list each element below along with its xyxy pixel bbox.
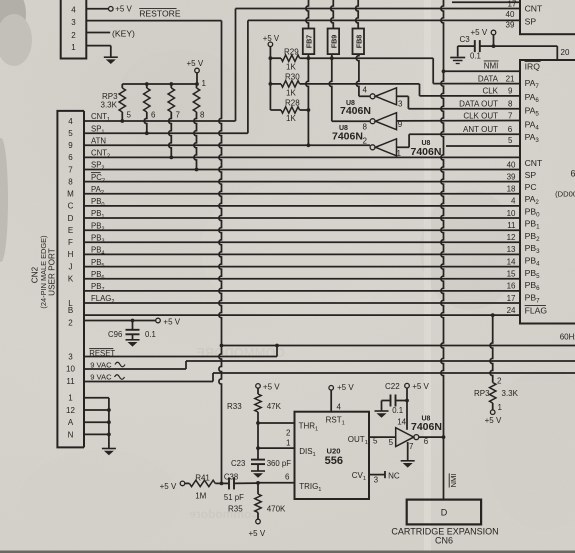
svg-text:2: 2	[71, 31, 76, 40]
svg-text:4: 4	[68, 117, 73, 126]
svg-text:K: K	[68, 275, 74, 284]
svg-text:4: 4	[511, 197, 516, 206]
svg-text:5: 5	[373, 436, 378, 445]
svg-text:A: A	[68, 418, 74, 427]
svg-text:FB8: FB8	[354, 35, 363, 49]
svg-text:7: 7	[508, 111, 513, 120]
svg-text:9 VAC: 9 VAC	[90, 373, 112, 382]
svg-text:R28: R28	[285, 99, 300, 108]
svg-text:CN6: CN6	[435, 536, 453, 546]
svg-text:1: 1	[286, 439, 291, 448]
svg-text:1M: 1M	[195, 492, 206, 501]
svg-text:1K: 1K	[286, 63, 296, 72]
svg-text:DATA: DATA	[478, 74, 499, 83]
svg-text:R41: R41	[195, 474, 210, 483]
svg-text:+5 V: +5 V	[187, 59, 204, 68]
svg-text:8: 8	[363, 123, 368, 132]
svg-text:RESET: RESET	[89, 349, 115, 358]
svg-text:PC: PC	[525, 182, 537, 192]
svg-text:1: 1	[202, 79, 207, 88]
svg-text:ANT OUT: ANT OUT	[463, 125, 498, 134]
svg-text:SP: SP	[525, 17, 537, 27]
svg-text:9: 9	[68, 141, 73, 150]
svg-text:14: 14	[397, 417, 406, 426]
svg-text:40: 40	[506, 10, 515, 19]
svg-text:2: 2	[286, 428, 291, 437]
svg-text:NMI: NMI	[484, 61, 499, 70]
svg-text:5: 5	[127, 111, 132, 120]
svg-text:R29: R29	[284, 48, 299, 57]
svg-text:10: 10	[66, 365, 75, 374]
svg-text:2: 2	[363, 137, 368, 146]
svg-text:47K: 47K	[267, 402, 282, 411]
svg-text:39: 39	[506, 21, 515, 30]
svg-text:65: 65	[571, 169, 575, 179]
svg-text:NC: NC	[388, 472, 400, 481]
svg-text:2: 2	[497, 377, 502, 386]
svg-text:+5 V: +5 V	[160, 482, 177, 491]
svg-text:51 pF: 51 pF	[224, 493, 244, 502]
svg-text:1: 1	[397, 149, 402, 158]
svg-text:60Hz: 60Hz	[560, 333, 575, 342]
svg-text:5: 5	[68, 129, 73, 138]
svg-text:FB7: FB7	[305, 35, 314, 49]
svg-text:11: 11	[66, 377, 75, 386]
svg-text:CLK: CLK	[482, 87, 498, 96]
svg-text:R33: R33	[227, 402, 242, 411]
svg-text:17: 17	[508, 0, 517, 8]
svg-text:3: 3	[68, 352, 73, 361]
svg-text:R30: R30	[285, 73, 300, 82]
svg-text:4: 4	[363, 86, 368, 95]
svg-text:C22: C22	[385, 382, 400, 391]
svg-text:E: E	[68, 226, 73, 235]
svg-text:7: 7	[409, 442, 414, 451]
svg-text:6: 6	[285, 473, 290, 482]
svg-text:RP3: RP3	[474, 389, 490, 398]
svg-text:(24-PIN MALE EDGE): (24-PIN MALE EDGE)	[39, 235, 48, 308]
svg-text:N: N	[68, 430, 74, 439]
svg-text:1K: 1K	[286, 89, 296, 98]
svg-text:CNT: CNT	[525, 3, 543, 13]
svg-text:13: 13	[507, 245, 516, 254]
svg-text:17: 17	[507, 294, 516, 303]
svg-text:3: 3	[374, 476, 379, 485]
svg-text:DATA OUT: DATA OUT	[459, 99, 498, 108]
svg-text:+5 V: +5 V	[485, 416, 502, 425]
svg-text:R35: R35	[228, 505, 243, 514]
svg-text:COMMODORE: COMMODORE	[196, 345, 285, 360]
svg-text:9: 9	[398, 120, 403, 129]
svg-text:5: 5	[389, 438, 394, 447]
svg-text:C: C	[68, 202, 74, 211]
svg-text:20: 20	[561, 48, 570, 57]
svg-text:10: 10	[507, 209, 516, 218]
svg-text:CN2: CN2	[31, 266, 40, 283]
svg-text:39: 39	[507, 172, 516, 181]
svg-text:SP: SP	[525, 170, 537, 180]
svg-text:+5 V: +5 V	[337, 383, 354, 392]
svg-text:3: 3	[398, 99, 403, 108]
svg-text:IRQ: IRQ	[525, 62, 541, 72]
svg-text:15: 15	[507, 270, 516, 279]
svg-text:1K: 1K	[286, 114, 296, 123]
svg-text:7: 7	[176, 111, 181, 120]
svg-text:8: 8	[508, 99, 513, 108]
svg-text:3.3K: 3.3K	[101, 101, 118, 110]
svg-text:8: 8	[200, 111, 205, 120]
svg-text:0.1: 0.1	[470, 52, 481, 61]
svg-text:11: 11	[507, 221, 516, 230]
svg-text:+5 V: +5 V	[115, 5, 132, 14]
svg-text:7: 7	[68, 165, 73, 174]
svg-text:1: 1	[68, 394, 73, 403]
svg-text:7406N: 7406N	[411, 146, 442, 158]
svg-text:12: 12	[66, 406, 75, 415]
svg-text:D: D	[441, 508, 448, 518]
svg-text:FB9: FB9	[329, 35, 338, 49]
svg-text:+5 V: +5 V	[471, 28, 488, 37]
svg-text:6: 6	[424, 437, 429, 446]
svg-text:+5 V: +5 V	[263, 34, 280, 43]
svg-text:F: F	[68, 238, 73, 247]
svg-text:14: 14	[507, 257, 516, 266]
svg-text:C96: C96	[108, 330, 122, 339]
svg-text:556: 556	[325, 455, 343, 467]
svg-text:2: 2	[68, 318, 73, 327]
svg-text:4: 4	[337, 403, 342, 412]
svg-text:C23: C23	[231, 459, 245, 468]
svg-text:7406N: 7406N	[411, 421, 442, 433]
svg-text:(KEY): (KEY)	[112, 28, 135, 38]
svg-text:FLAG: FLAG	[525, 306, 548, 316]
svg-text:C38: C38	[224, 473, 238, 482]
svg-text:0.1: 0.1	[392, 406, 403, 415]
svg-text:3.3K: 3.3K	[502, 389, 519, 398]
svg-text:4: 4	[71, 5, 76, 14]
svg-text:B: B	[68, 306, 73, 315]
svg-text:6: 6	[151, 111, 156, 120]
svg-text:M: M	[67, 190, 74, 199]
svg-text:+5 V: +5 V	[412, 382, 429, 391]
svg-text:360 pF: 360 pF	[267, 459, 292, 468]
svg-text:470K: 470K	[267, 505, 286, 514]
svg-text:CNT: CNT	[525, 158, 543, 168]
svg-text:6: 6	[508, 125, 513, 134]
svg-text:NMI: NMI	[449, 474, 458, 488]
svg-text:6: 6	[68, 153, 73, 162]
svg-text:12: 12	[507, 233, 516, 242]
svg-text:C3: C3	[460, 35, 471, 44]
svg-text:0.1: 0.1	[145, 330, 156, 339]
svg-text:Commodore: Commodore	[189, 507, 260, 521]
svg-text:7406N: 7406N	[340, 105, 371, 117]
svg-text:+5 V: +5 V	[163, 317, 180, 326]
svg-text:21: 21	[506, 74, 515, 83]
svg-text:8: 8	[68, 177, 73, 186]
svg-text:D: D	[68, 214, 74, 223]
svg-text:J: J	[69, 262, 73, 271]
svg-text:9: 9	[508, 87, 513, 96]
svg-text:USER PORT: USER PORT	[48, 248, 57, 296]
svg-text:+5 V: +5 V	[249, 529, 266, 538]
svg-text:+5 V: +5 V	[263, 383, 280, 392]
svg-text:5: 5	[508, 136, 513, 145]
svg-text:CLK OUT: CLK OUT	[463, 111, 498, 120]
svg-text:1: 1	[498, 403, 503, 412]
svg-text:40: 40	[507, 160, 516, 169]
svg-text:7406N: 7406N	[332, 131, 363, 143]
svg-text:18: 18	[507, 185, 516, 194]
svg-text:9 VAC: 9 VAC	[90, 360, 112, 369]
svg-text:H: H	[68, 250, 74, 259]
svg-text:1: 1	[71, 43, 76, 52]
svg-text:16: 16	[507, 282, 516, 291]
svg-text:ATN: ATN	[91, 137, 106, 146]
svg-text:RESTORE: RESTORE	[139, 8, 181, 18]
svg-text:3: 3	[71, 18, 76, 27]
svg-text:(DD00: (DD00	[555, 190, 575, 199]
svg-text:24: 24	[507, 306, 516, 315]
